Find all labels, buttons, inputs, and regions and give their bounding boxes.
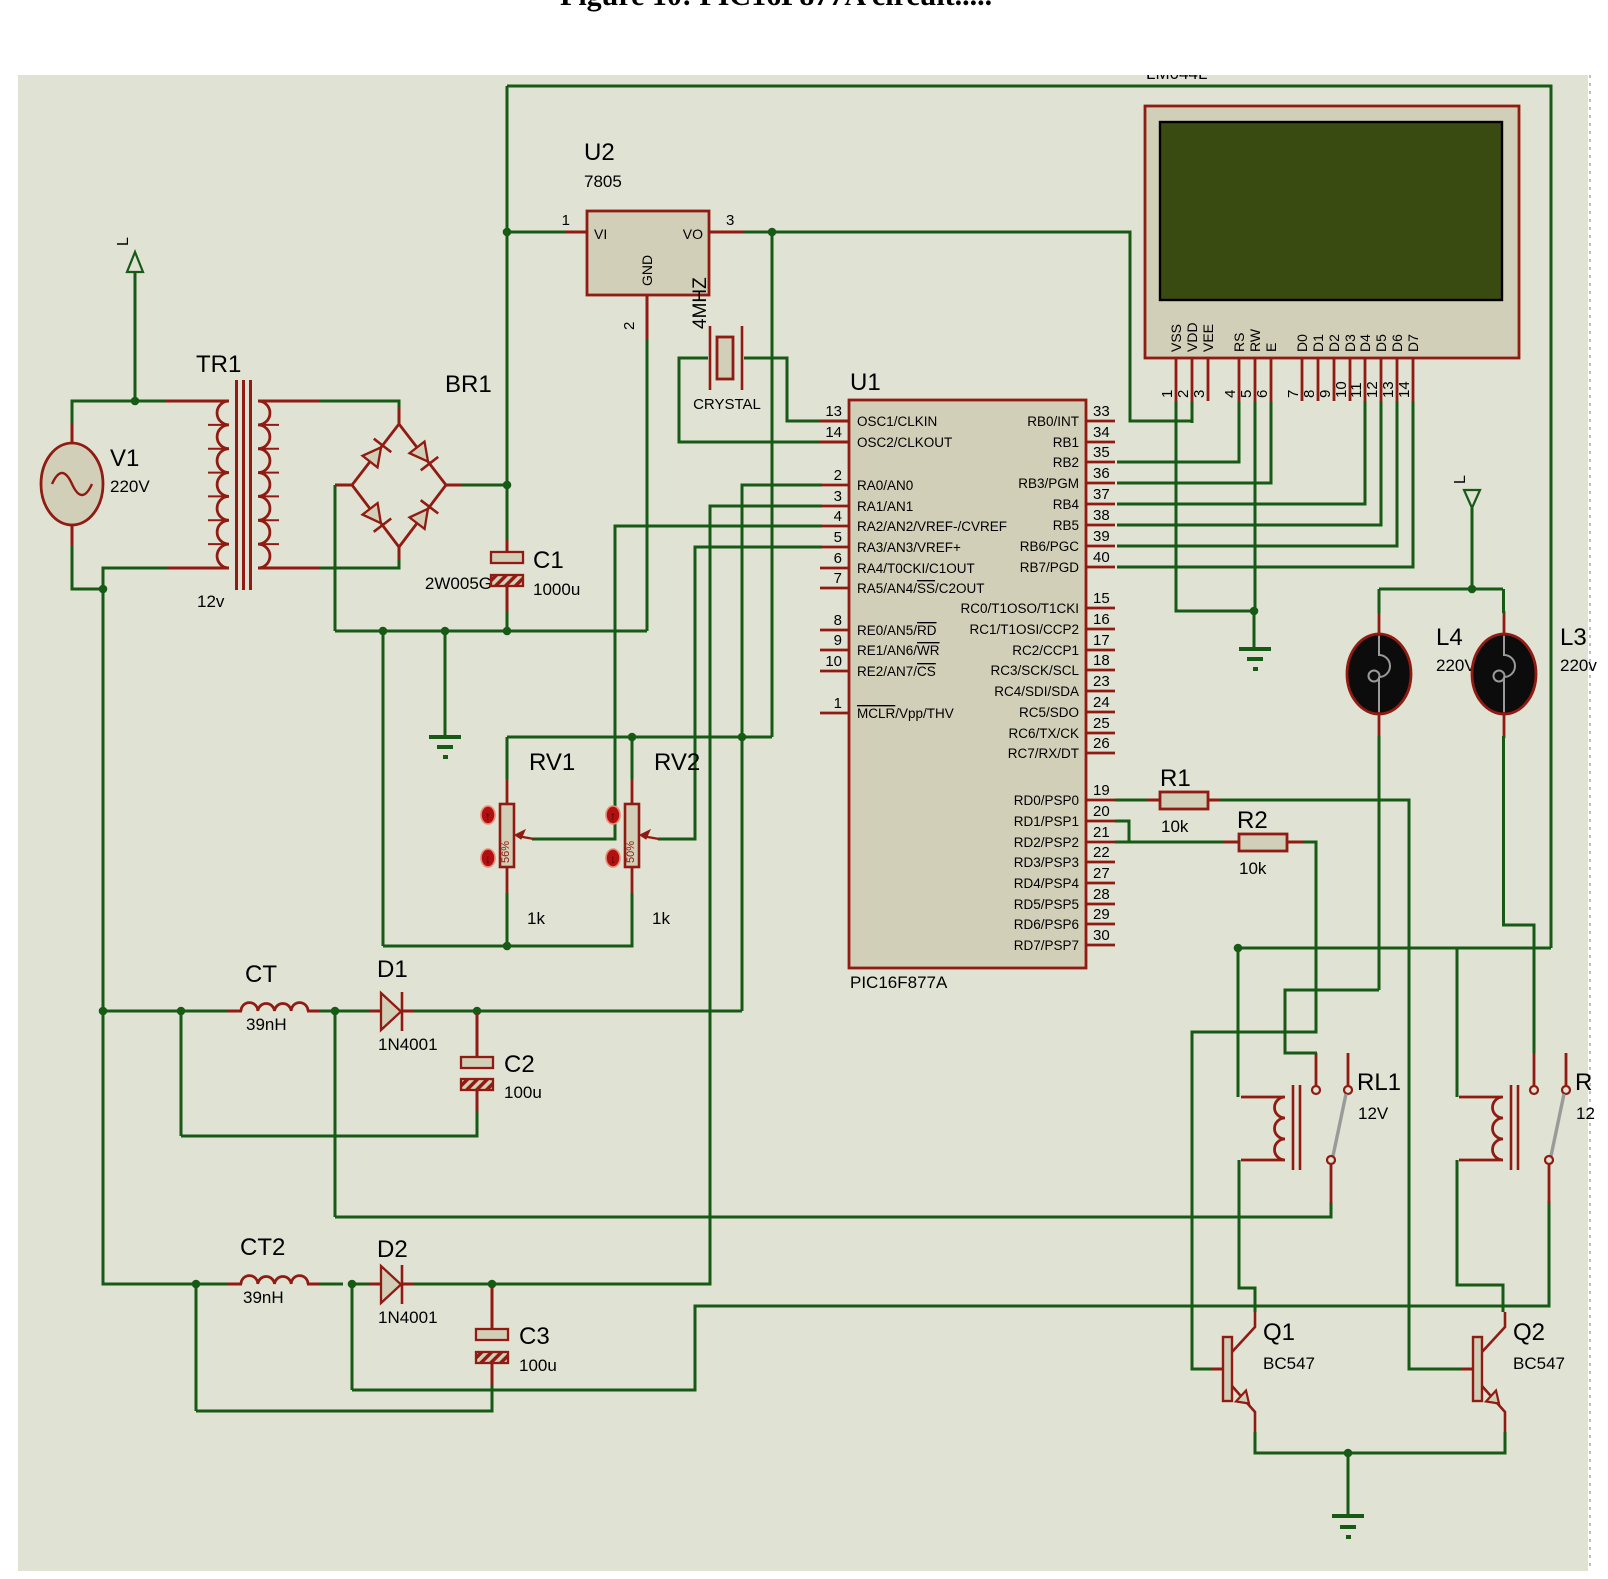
wire D1 cathode stub (402, 1010, 416, 1013)
U1 pin 29 (RD6/PSP6) (1014, 906, 1115, 932)
svg-text:40: 40 (1093, 549, 1110, 566)
svg-text:RB4: RB4 (1053, 497, 1080, 512)
svg-text:5: 5 (834, 529, 842, 546)
svg-text:10: 10 (825, 653, 842, 670)
lamp L4 (1347, 611, 1411, 738)
U1 pin 25 (RC6/TX/CK) (1008, 715, 1115, 741)
U1 pin 1 (MCLR/Vpp/THV) (820, 695, 954, 721)
wire 5V node to LCD VDD (via x=1130) (772, 232, 1192, 421)
U1 pin 9 (RE1/AN6/WR) (820, 632, 940, 658)
wire R2 right stub (1287, 841, 1305, 844)
svg-text:RB6/PGC: RB6/PGC (1020, 539, 1080, 554)
svg-text:7805: 7805 (584, 172, 622, 191)
wire TR1 primary top pin stub (165, 400, 229, 403)
ground symbol (bottom) (1332, 1516, 1364, 1537)
transistor Q2 (1473, 1312, 1505, 1432)
svg-text:RB5: RB5 (1053, 518, 1079, 533)
svg-text:38: 38 (1093, 507, 1110, 524)
wire 5V node down to pot rail (771, 232, 774, 737)
wire CT2 right pin stub (307, 1283, 322, 1286)
svg-text:1: 1 (834, 695, 842, 712)
svg-text:1k: 1k (527, 909, 545, 928)
svg-text:C2: C2 (504, 1051, 535, 1078)
svg-text:220v: 220v (1560, 656, 1597, 675)
wire RA0 to riser x=742 (742, 485, 822, 737)
U1 pin 27 (RD4/PSP4) (1014, 865, 1115, 891)
U1 pin 21 (RD2/PSP2) (1014, 824, 1115, 850)
wire RD2 to R2 (1115, 841, 1225, 844)
junction LCD ground node (1250, 607, 1259, 616)
svg-text:C3: C3 (519, 1323, 550, 1350)
wire Q1 base stub (1212, 1368, 1223, 1371)
resistor R1 (1160, 792, 1208, 809)
svg-text:RA1/AN1: RA1/AN1 (857, 499, 913, 514)
wire crystal left to OSC2 (pin14) (679, 358, 822, 442)
svg-text:RB0/INT: RB0/INT (1027, 414, 1079, 429)
svg-text:C1: C1 (533, 547, 564, 574)
svg-text:9: 9 (834, 632, 842, 649)
svg-text:↑: ↑ (485, 809, 491, 823)
svg-text:23: 23 (1093, 673, 1110, 690)
wire RL2 coil feed x=1457 (1456, 948, 1459, 1097)
wire R1 left stub (1148, 799, 1160, 802)
svg-text:Q2: Q2 (1513, 1319, 1545, 1346)
svg-text:L: L (115, 237, 132, 246)
svg-text:9: 9 (1317, 390, 1334, 398)
wire RA1 to riser x=710 (494, 506, 822, 1284)
svg-text:1: 1 (562, 212, 570, 229)
svg-text:2: 2 (621, 322, 638, 330)
svg-text:↓: ↓ (610, 852, 616, 866)
wire crystal left electrode (709, 326, 712, 390)
wire U2 GND pin stub (646, 295, 649, 340)
wire left rail corner into CT2 row (103, 1282, 196, 1284)
LCD pin 8 (D1) (1301, 334, 1326, 401)
resistor R2 (1239, 834, 1287, 851)
svg-text:MCLR/Vpp/THV: MCLR/Vpp/THV (857, 706, 954, 721)
LCD pin 14 (D7) (1396, 334, 1421, 401)
svg-text:2W005G: 2W005G (425, 574, 492, 593)
U1 pin 20 (RD1/PSP1) (1014, 803, 1115, 829)
capacitor C3 top plate (476, 1329, 508, 1340)
wire left rail x=103 CT row to CT2 row (102, 1011, 105, 1284)
wire R1 right stub (1208, 799, 1221, 802)
junction right L terminal / lamp rail (1468, 585, 1477, 594)
svg-text:RD5/PSP5: RD5/PSP5 (1014, 897, 1079, 912)
inductor CT (241, 1003, 308, 1011)
relay RL1 (1241, 1053, 1352, 1203)
crystal body (717, 337, 733, 379)
wire RD0 to R1 (1115, 799, 1150, 802)
wire Q2 base stub (1462, 1368, 1473, 1371)
svg-text:VEE: VEE (1200, 324, 1216, 352)
svg-text:↑: ↑ (610, 809, 616, 823)
wire R2 left stub (1223, 841, 1239, 844)
wire RV1 bottom to return rail (506, 893, 509, 946)
svg-text:D2: D2 (1326, 334, 1342, 352)
capacitor C2 top plate (461, 1057, 493, 1068)
junction RA0/D1 riser on pot rail (738, 733, 747, 742)
wire U2 GND riser x=647 (646, 338, 649, 631)
wire TR1 secondary top to BR1 top (319, 401, 399, 412)
U1 pin 35 (RB2) (1053, 444, 1115, 470)
wire L3 bottom to RL2 contact (1504, 736, 1535, 1053)
junction left rail / CT row (99, 1007, 108, 1016)
svg-text:RC0/T1OSO/T1CKI: RC0/T1OSO/T1CKI (960, 601, 1079, 616)
U1 pin 18 (RC3/SCK/SCL) (990, 652, 1115, 678)
wire BR1 left pin stub (335, 484, 352, 487)
U1 pin 14 (OSC2/CLKOUT) (820, 424, 952, 450)
wire CT row left segment (103, 1010, 230, 1013)
svg-text:4MHZ: 4MHZ (690, 277, 711, 329)
svg-text:D1: D1 (1310, 334, 1326, 352)
U1 pin 26 (RC7/RX/DT) (1008, 735, 1115, 761)
wire LCD VDD drop (1191, 401, 1194, 423)
wire OSC1 pin stub (820, 420, 849, 423)
svg-text:OSC2/CLKOUT: OSC2/CLKOUT (857, 435, 952, 450)
wire VI to riser (507, 231, 565, 234)
wire RL1 coil feed x=1238 (1237, 948, 1240, 1097)
svg-text:220V: 220V (1436, 656, 1476, 675)
wire C2 top pin (476, 1014, 479, 1057)
svg-text:11: 11 (1348, 382, 1365, 398)
wire L4 top drop (1378, 589, 1381, 613)
wire D1 to C2 node (414, 1010, 477, 1013)
wire RA3 to RV2 wiper (658, 547, 822, 839)
LCD pin 9 (D2) (1317, 334, 1342, 401)
wire D1 anode stub (370, 1010, 381, 1013)
wire L4 to RL1 contact (1285, 990, 1379, 1053)
wire pot rail corner down to RV1 top (506, 737, 509, 779)
wire TR1 secondary top pin stub (258, 400, 321, 403)
wire BR1 right pin stub (446, 484, 464, 487)
svg-text:RL1: RL1 (1357, 1069, 1401, 1096)
U1 pin 15 (RC0/T1OSO/T1CKI) (960, 590, 1115, 616)
U1 pin 13 (OSC1/CLKIN) (820, 403, 937, 429)
U1 pin 34 (RB1) (1053, 424, 1115, 450)
wire CT2 node to D2 anode (352, 1283, 372, 1286)
wire lamp top rail (1379, 588, 1503, 591)
svg-text:RD1/PSP1: RD1/PSP1 (1014, 814, 1079, 829)
svg-text:OSC1/CLKIN: OSC1/CLKIN (857, 414, 937, 429)
junction BR1+ / C1 riser (503, 481, 512, 490)
wire L3 top drop (1502, 589, 1505, 613)
potentiometer RV1 (481, 779, 534, 893)
svg-text:26: 26 (1093, 735, 1110, 752)
wire RL2 common return (y=1306) (352, 1201, 1549, 1390)
wire V1 top to L terminal junction and TR1 (72, 401, 167, 424)
svg-text:RA5/AN4/SS/C2OUT: RA5/AN4/SS/C2OUT (857, 581, 985, 596)
diode D2 (381, 1265, 402, 1304)
svg-text:VI: VI (594, 226, 607, 242)
svg-text:28: 28 (1093, 886, 1110, 903)
inductor CT2 (241, 1276, 308, 1284)
wire ground symbol lead (444, 631, 447, 737)
svg-text:R1: R1 (1160, 765, 1191, 792)
wire CT2 to D2 (320, 1283, 343, 1286)
LCD pin 11 (D4) (1348, 334, 1373, 401)
LCD pin 12 (D5) (1364, 334, 1389, 401)
svg-text:15: 15 (1093, 590, 1110, 607)
wire LCD E to RB3 (1117, 401, 1271, 483)
U1 pin 39 (RB6/PGC) (1020, 528, 1115, 554)
wire LCD D7 to RB7 (1117, 401, 1413, 567)
junction relay rail / RL1 coil feed (1234, 944, 1243, 953)
svg-text:24: 24 (1093, 694, 1110, 711)
svg-text:D1: D1 (377, 956, 408, 983)
svg-text:RV2: RV2 (654, 749, 700, 776)
svg-text:RB1: RB1 (1053, 435, 1079, 450)
regulator U2 body (587, 211, 709, 295)
svg-text:V1: V1 (110, 445, 139, 472)
svg-text:18: 18 (1093, 652, 1110, 669)
wire RL1 coil to Q1 collector (1239, 1160, 1255, 1312)
wire LCD VSS down to ground (1176, 401, 1254, 611)
wire RA2 to RV1 wiper (532, 526, 822, 839)
terminal L (left) arrow (127, 252, 143, 272)
wire BR1 bottom pin stub (398, 545, 401, 559)
svg-text:U1: U1 (850, 369, 881, 396)
svg-text:Q1: Q1 (1263, 1319, 1295, 1346)
svg-text:RD3/PSP3: RD3/PSP3 (1014, 855, 1079, 870)
svg-text:35: 35 (1093, 444, 1110, 461)
U1 pin 6 (RA4/T0CKI/C1OUT) (820, 550, 975, 576)
svg-text:50%: 50% (625, 841, 637, 863)
wire 5V link RB0-row to VDD (1130, 420, 1192, 423)
svg-text:1N4001: 1N4001 (378, 1308, 438, 1327)
capacitor C1 top plate (491, 552, 523, 563)
svg-text:100u: 100u (504, 1083, 542, 1102)
wire RL1 common return (y=1217) (335, 1202, 1331, 1217)
svg-text:RB2: RB2 (1053, 455, 1079, 470)
wire VO to 5V node (743, 231, 772, 234)
svg-text:4: 4 (834, 508, 842, 525)
svg-text:36: 36 (1093, 465, 1110, 482)
svg-text:34: 34 (1093, 424, 1110, 441)
junction D1 out / C2 (473, 1007, 482, 1016)
svg-text:D6: D6 (1389, 334, 1405, 352)
svg-text:RV1: RV1 (529, 749, 575, 776)
svg-text:RW: RW (1247, 328, 1263, 352)
LCD pin 7 (D0) (1285, 334, 1310, 401)
svg-text:RC6/TX/CK: RC6/TX/CK (1008, 726, 1079, 741)
svg-text:6: 6 (1254, 390, 1271, 398)
svg-text:3: 3 (726, 212, 734, 229)
wire crystal right to OSC1 (pin13) (744, 358, 822, 421)
junction ground rail / C1 (503, 627, 512, 636)
microcontroller U1 body (849, 400, 1086, 968)
diode D1 (381, 992, 402, 1031)
svg-text:BR1: BR1 (445, 371, 492, 398)
svg-text:4: 4 (1222, 390, 1239, 398)
svg-text:CRYSTAL: CRYSTAL (693, 396, 761, 413)
wire CT2 row segment (196, 1283, 230, 1286)
wire LCD D6 to RB6 (1117, 401, 1397, 546)
svg-text:37: 37 (1093, 486, 1110, 503)
svg-text:L3: L3 (1560, 624, 1587, 651)
svg-text:D7: D7 (1405, 334, 1421, 352)
wire left rail x=103 down to CT row (102, 589, 105, 1011)
svg-text:1: 1 (1159, 390, 1176, 398)
svg-text:39: 39 (1093, 528, 1110, 545)
wire ground lead (bottom) (1347, 1453, 1350, 1516)
LCD pin 2 (VDD) (1175, 322, 1200, 401)
svg-text:D3: D3 (1342, 334, 1358, 352)
svg-text:R2: R2 (1237, 807, 1268, 834)
svg-text:RD2/PSP2: RD2/PSP2 (1014, 835, 1079, 850)
transformer TR1 (208, 380, 279, 590)
wire RL2-return riser x=352 (351, 1284, 354, 1390)
wire R1 to Q2 base (1219, 800, 1464, 1369)
U1 pin 36 (RB3/PGM) (1018, 465, 1115, 491)
svg-text:220V: 220V (110, 477, 150, 496)
U1 pin 16 (RC1/T1OSI/CCP2) (969, 611, 1115, 637)
svg-text:22: 22 (1093, 844, 1110, 861)
svg-text:GND: GND (639, 255, 655, 286)
U1 pin 10 (RE2/AN7/CS) (820, 653, 936, 679)
wire LCD D4 to RB4 (1117, 401, 1365, 504)
junction RV2 top on pot rail (628, 733, 637, 742)
U1 pin 4 (RA2/AN2/VREF-/CVREF) (820, 508, 1007, 534)
U1 pin 23 (RC4/SDI/SDA) (994, 673, 1115, 699)
svg-text:CT2: CT2 (240, 1234, 285, 1261)
svg-text:RC2/CCP1: RC2/CCP1 (1012, 643, 1079, 658)
LCD pin 3 (VEE) (1191, 324, 1216, 401)
svg-text:L: L (1452, 475, 1469, 484)
svg-text:D5: D5 (1373, 334, 1389, 352)
wire C3 return riser x=196 (195, 1284, 198, 1411)
wire D2 cathode stub (402, 1283, 416, 1286)
svg-text:14: 14 (1396, 381, 1413, 398)
wire LCD ground lead (1253, 611, 1256, 649)
capacitor C1 bottom plate (hatched) (491, 575, 523, 586)
svg-text:12: 12 (1364, 381, 1381, 398)
svg-text:D2: D2 (377, 1236, 408, 1263)
junction VO 5V node (768, 228, 777, 237)
wire crystal right electrode (741, 326, 744, 390)
wire CT2 left pin stub (228, 1283, 242, 1286)
svg-text:RE1/AN6/WR: RE1/AN6/WR (857, 643, 940, 658)
junction RV1 bottom on return rail (503, 942, 512, 951)
svg-text:R: R (1575, 1069, 1592, 1096)
junction L terminal on V1-TR1 wire (131, 397, 140, 406)
svg-text:RC3/SCK/SCL: RC3/SCK/SCL (990, 663, 1079, 678)
svg-text:RA3/AN3/VREF+: RA3/AN3/VREF+ (857, 540, 961, 555)
wire 12V riser x=507 (top rail to bridge + and C1) (506, 86, 509, 552)
LCD pin 4 (RS) (1222, 333, 1247, 401)
svg-text:5: 5 (1238, 390, 1255, 398)
wire LCD RS to RB2 (1117, 401, 1239, 462)
wire RL1-return riser x=335 (334, 1011, 337, 1217)
svg-text:TR1: TR1 (196, 351, 241, 378)
wire 12V top rail from C1/VI riser to right side (507, 86, 1551, 948)
U1 pin 37 (RB4) (1053, 486, 1115, 512)
wire Q2 emitter down (1348, 1432, 1505, 1453)
wire TR1 primary bottom pin stub (165, 567, 229, 570)
svg-text:Figure 10: PIC16F877A circuit.: Figure 10: PIC16F877A circuit..... (560, 0, 992, 12)
wire C1 bottom pin (506, 586, 509, 614)
U1 pin 40 (RB7/PGD) (1020, 549, 1115, 575)
svg-text:RC4/SDI/SDA: RC4/SDI/SDA (994, 684, 1079, 699)
wire LCD RW down to ground (1254, 401, 1257, 611)
wire CT to D1 (320, 1010, 372, 1013)
svg-text:D4: D4 (1357, 334, 1373, 352)
junction C2-return tap (177, 1007, 186, 1016)
svg-text:RC5/SDO: RC5/SDO (1019, 705, 1079, 720)
junction D2 out / C3 / RA1 (488, 1280, 497, 1289)
junction CT2 row / C3 return (192, 1280, 201, 1289)
svg-text:1k: 1k (652, 909, 670, 928)
junction ground rail / pot-return riser (379, 627, 388, 636)
svg-text:100u: 100u (519, 1356, 557, 1375)
LCD pin 13 (D6) (1380, 334, 1405, 401)
wire C1 bottom to ground rail (506, 612, 509, 631)
svg-text:12: 12 (1576, 1104, 1595, 1123)
wire D2 to C3 node (414, 1283, 492, 1286)
U1 pin 3 (RA1/AN1) (820, 488, 913, 514)
svg-text:RD7/PSP7: RD7/PSP7 (1014, 938, 1079, 953)
svg-text:E: E (1263, 343, 1279, 352)
potentiometer RV2 (606, 779, 659, 893)
junction ground rail / ground symbol (441, 627, 450, 636)
wire C3 top pin (491, 1287, 494, 1329)
svg-text:RC7/RX/DT: RC7/RX/DT (1008, 746, 1079, 761)
wire C2 bottom pin (476, 1090, 479, 1113)
wire D1 node to RA0 riser (477, 1010, 742, 1013)
capacitor C2 bottom plate (hatched) (461, 1079, 493, 1090)
wire OSC2 pin stub (820, 441, 849, 444)
ground symbol (LCD) (1239, 649, 1271, 669)
junction V1 bottom / left rail (99, 585, 108, 594)
U1 pin 38 (RB5) (1053, 507, 1115, 533)
transistor Q1 (1223, 1312, 1255, 1432)
svg-text:RD4/PSP4: RD4/PSP4 (1014, 876, 1080, 891)
wire relay 12V rail y=948 (1238, 947, 1551, 950)
wire pot-return riser x=383 (382, 631, 385, 946)
U1 pin 2 (RA0/AN0) (820, 467, 913, 493)
svg-text:CT: CT (245, 961, 277, 988)
wire C3 return loop (196, 1386, 492, 1411)
svg-text:↓: ↓ (485, 852, 491, 866)
svg-text:21: 21 (1093, 824, 1110, 841)
svg-text:RA0/AN0: RA0/AN0 (857, 478, 913, 493)
wire ground rail y=631 (335, 630, 647, 633)
svg-text:10k: 10k (1161, 817, 1189, 836)
U1 pin 5 (RA3/AN3/VREF+) (820, 529, 961, 555)
svg-text:12V: 12V (1358, 1104, 1389, 1123)
wire CT left pin stub (228, 1010, 242, 1013)
svg-text:RB7/PGD: RB7/PGD (1020, 560, 1080, 575)
svg-text:30: 30 (1093, 927, 1110, 944)
U1 pin 28 (RD5/PSP5) (1014, 886, 1115, 912)
svg-text:13: 13 (825, 403, 842, 420)
bridge rectifier BR1 (352, 424, 446, 547)
junction emitter ground node (1344, 1449, 1353, 1458)
U1 pin 8 (RE0/AN5/RD) (820, 612, 937, 638)
svg-text:RD6/PSP6: RD6/PSP6 (1014, 917, 1079, 932)
LCD LM044L body (1145, 106, 1519, 358)
svg-text:13: 13 (1380, 381, 1397, 398)
svg-text:RC1/T1OSI/CCP2: RC1/T1OSI/CCP2 (969, 622, 1079, 637)
svg-text:6: 6 (834, 550, 842, 567)
ground symbol (bridge) (429, 737, 461, 757)
wire C3 bottom pin (491, 1363, 494, 1388)
svg-text:14: 14 (825, 424, 842, 441)
svg-text:1N4001: 1N4001 (378, 1035, 438, 1054)
junction CT/D1 node (tap to RL1 return) (331, 1007, 340, 1016)
svg-text:PIC16F877A: PIC16F877A (850, 973, 948, 992)
svg-text:7: 7 (1285, 390, 1302, 398)
